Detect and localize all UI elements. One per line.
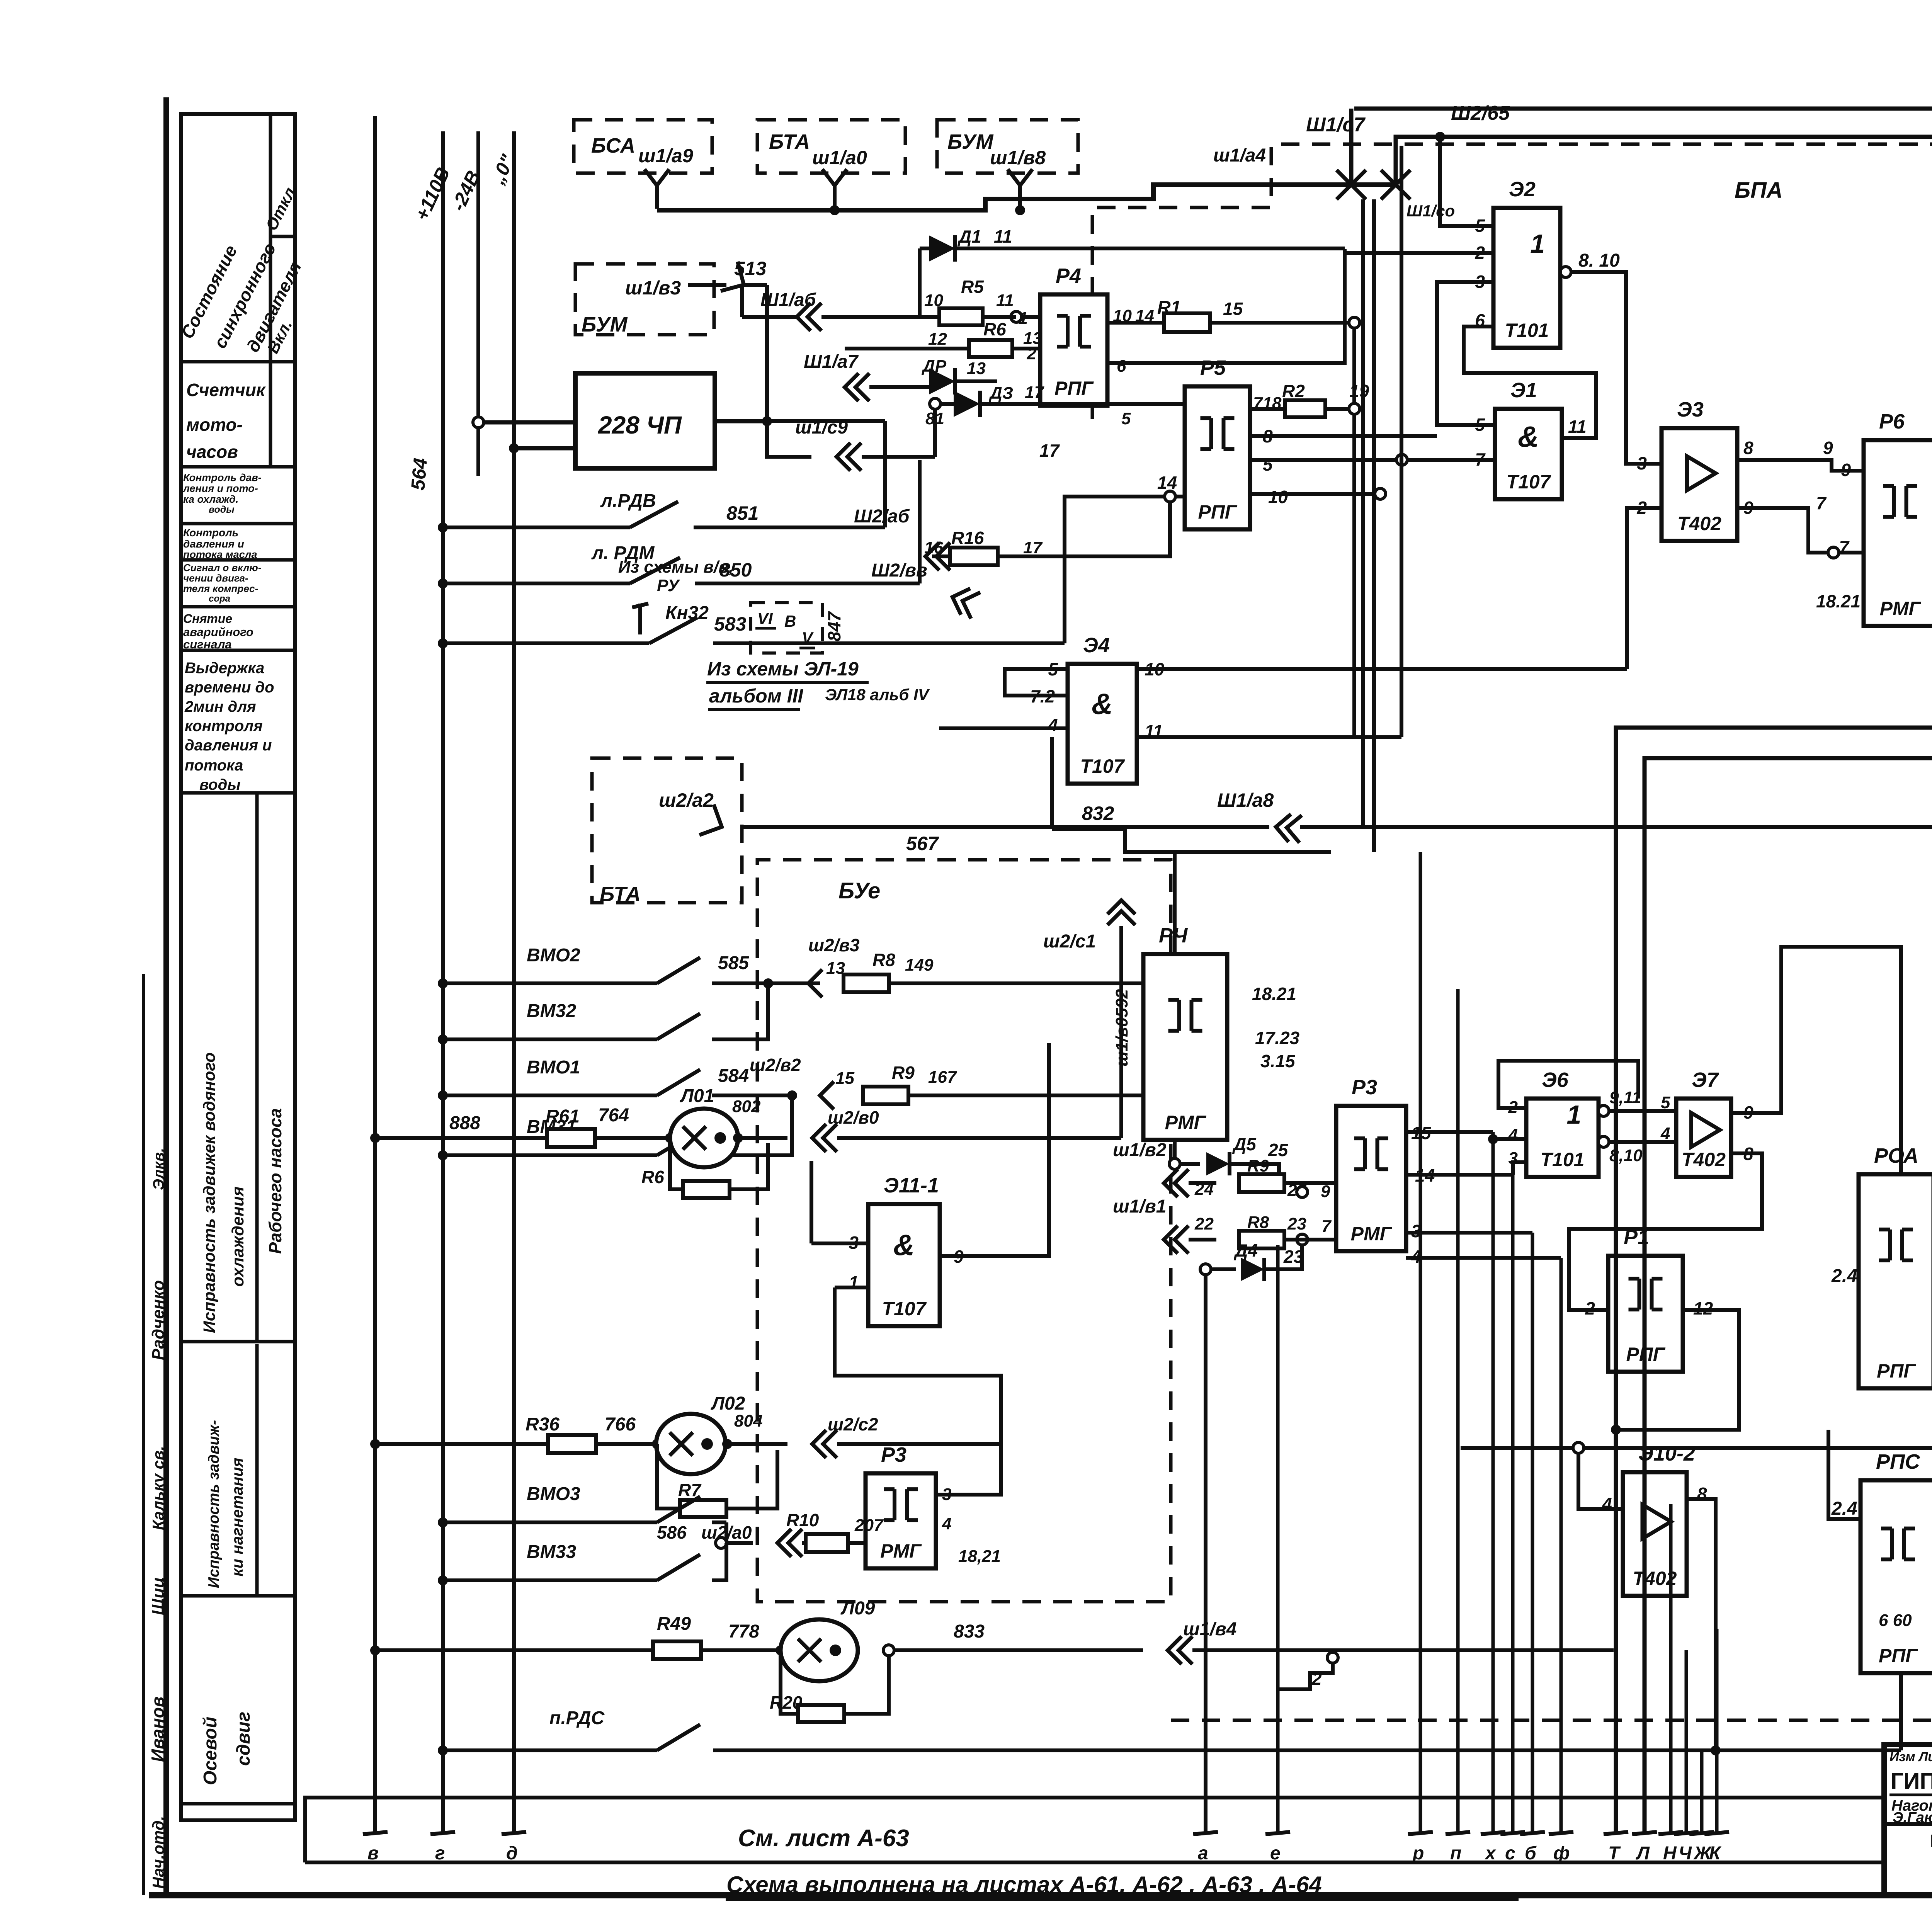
svg-text:18,21: 18,21 (958, 1547, 1001, 1566)
svg-text:РПГ: РПГ (1198, 501, 1238, 523)
svg-text:РПГ: РПГ (1879, 1645, 1918, 1667)
E4 pin4 wire (939, 726, 1068, 730)
svg-text:ш1/в2: ш1/в2 (1113, 1140, 1167, 1160)
svg-text:Рабочего насоса: Рабочего насоса (265, 1108, 285, 1254)
svg-text:Ш1/а8: Ш1/а8 (1217, 789, 1274, 811)
wire R5 pin5 to E1 pin7 (1250, 458, 1495, 462)
svg-text:Радченко: Радченко (149, 1280, 168, 1360)
svg-text:9: 9 (1841, 460, 1851, 480)
wire 0 to 228ChP (509, 443, 519, 453)
svg-text:с: с (1505, 1843, 1515, 1864)
svg-text:584: 584 (718, 1066, 749, 1086)
svg-text:11: 11 (994, 226, 1012, 247)
terminal р (1408, 1832, 1433, 1834)
svg-text:2.4: 2.4 (1831, 1498, 1857, 1519)
E6 pin2 loop (1498, 1061, 1638, 1108)
svg-text:См. лист А-63: См. лист А-63 (738, 1825, 909, 1852)
svg-text:&: & (1518, 420, 1539, 453)
svg-text:Л: Л (1636, 1843, 1650, 1864)
svg-text:Р3: Р3 (1352, 1076, 1377, 1099)
wire sh1/v4 to right (1333, 1648, 1614, 1652)
svg-text:РПС: РПС (1876, 1450, 1920, 1473)
terminal б (1520, 1832, 1545, 1834)
svg-text:РОА: РОА (1874, 1144, 1918, 1167)
terminal а (1193, 1832, 1218, 1834)
svg-text:Элкв.: Элкв. (150, 1148, 167, 1190)
svg-text:Ш1/со: Ш1/со (1406, 202, 1455, 220)
svg-text:контроля: контроля (185, 718, 263, 735)
svg-text:Осевой: Осевой (200, 1717, 221, 1785)
svg-text:п.РДС: п.РДС (549, 1708, 605, 1728)
svg-text:Э6: Э6 (1542, 1068, 1569, 1092)
bus -24V (476, 131, 480, 476)
svg-text:Выдержка: Выдержка (185, 660, 264, 677)
svg-text:б: б (1525, 1843, 1537, 1864)
svg-text:ш1/в3: ш1/в3 (625, 277, 681, 299)
cell: discharge valve (255, 1344, 259, 1596)
relay RPS (1861, 1480, 1932, 1673)
svg-text:х: х (1484, 1843, 1497, 1864)
svg-text:Нач.отд.: Нач.отд. (149, 1816, 167, 1889)
svg-text:давления и: давления и (183, 538, 244, 550)
svg-text:VI: VI (757, 609, 773, 628)
resistor R1 (1164, 313, 1210, 332)
svg-text:д: д (506, 1843, 518, 1864)
svg-text:5: 5 (1121, 409, 1131, 428)
svg-text:Щиц: Щиц (149, 1577, 168, 1615)
title block: org stamp (1884, 1822, 1932, 1826)
svg-text:23: 23 (1287, 1214, 1306, 1233)
strip riser a (1204, 1275, 1207, 1833)
wire 583 (713, 641, 1065, 645)
svg-text:15: 15 (835, 1069, 854, 1088)
svg-text:ш1/в8: ш1/в8 (990, 147, 1046, 168)
svg-text:Т: Т (1608, 1843, 1621, 1864)
block 228ChP (575, 373, 715, 468)
connector sh1/v4 (1168, 1636, 1182, 1664)
svg-text:ш1/а4: ш1/а4 (1213, 145, 1266, 166)
E2 pin5 wire from Sh2/b5 (1440, 137, 1493, 226)
svg-text:Л01: Л01 (680, 1086, 714, 1106)
X connector 2 (1381, 170, 1410, 199)
resistor R6h (969, 340, 1012, 357)
svg-text:ления и пото-: ления и пото- (182, 483, 258, 494)
svg-text:7: 7 (1816, 493, 1827, 513)
svg-text:мото-: мото- (186, 415, 243, 435)
svg-text:R20: R20 (770, 1692, 803, 1713)
R3 mid pin14 wire (1406, 1173, 1513, 1177)
svg-text:Т107: Т107 (1507, 471, 1551, 493)
svg-text:Э2: Э2 (1509, 178, 1536, 201)
relay ROA (1859, 1174, 1932, 1388)
svg-text:ш2/в0: ш2/в0 (828, 1107, 879, 1128)
terminal г (430, 1832, 455, 1834)
svg-text:4: 4 (1048, 715, 1058, 735)
svg-text:ш2/с1: ш2/с1 (1043, 931, 1096, 952)
svg-text:832: 832 (1082, 803, 1114, 824)
svg-text:ш1/в1: ш1/в1 (1113, 1196, 1166, 1217)
svg-text:804: 804 (734, 1412, 762, 1430)
svg-text:14: 14 (1157, 473, 1177, 493)
svg-text:потока: потока (185, 757, 243, 774)
svg-text:R16: R16 (951, 528, 984, 548)
terminal Н (1658, 1832, 1683, 1834)
svg-text:ш1/а9: ш1/а9 (638, 145, 693, 167)
svg-text:Р3: Р3 (881, 1443, 906, 1466)
svg-text:R1: R1 (1157, 298, 1181, 318)
svg-text:ш1/в4: ш1/в4 (1183, 1619, 1236, 1639)
svg-text:Ш2/65: Ш2/65 (1451, 102, 1510, 124)
terminal Л (1632, 1832, 1657, 1834)
svg-text:Из схемы ЭЛ-19: Из схемы ЭЛ-19 (707, 658, 859, 680)
bus +110V (441, 131, 445, 1833)
wire a5 long (1300, 825, 1932, 829)
left info table (181, 114, 295, 1820)
svg-text:17: 17 (1025, 383, 1044, 402)
connector + R10 (777, 1529, 791, 1557)
relay R1 (1608, 1256, 1683, 1372)
svg-text:РМГ: РМГ (1880, 598, 1922, 619)
cell: state of synchronous motor (269, 114, 272, 362)
E11-1 pin1 wire (835, 1286, 868, 1289)
svg-text:9: 9 (1823, 438, 1833, 458)
element E2 (1493, 208, 1560, 348)
svg-text:РМГ: РМГ (880, 1540, 922, 1562)
svg-text:R2: R2 (1282, 381, 1305, 401)
svg-text:5: 5 (1263, 454, 1273, 474)
svg-text:Р5: Р5 (1200, 356, 1226, 379)
trunk verticals to strip (1419, 852, 1422, 1833)
terminal ф (1549, 1832, 1573, 1834)
resistor R16 (950, 548, 998, 565)
bus 0 (512, 131, 516, 1833)
svg-text:25: 25 (1268, 1140, 1289, 1160)
E3 pin9 to R6 pin7 (1737, 508, 1864, 553)
connector 513 (688, 283, 726, 287)
wire sh1/s7 riser (1349, 109, 1354, 185)
wire to 684 (1396, 137, 1932, 270)
svg-text:Э11-1: Э11-1 (884, 1174, 939, 1197)
wire R16 to pin14 (998, 502, 1170, 556)
svg-text:Ш2/аб: Ш2/аб (854, 506, 910, 527)
svg-text:&: & (1092, 688, 1113, 721)
svg-text:1: 1 (1567, 1100, 1582, 1129)
dashed box BPA (1092, 144, 1932, 421)
svg-text:БСА: БСА (591, 134, 635, 157)
svg-text:ш2/с2: ш2/с2 (828, 1414, 878, 1434)
resistor R8 (844, 975, 889, 992)
svg-text:2: 2 (1027, 344, 1037, 363)
resistor R7 (657, 1444, 680, 1509)
connector out BTA (699, 804, 722, 835)
svg-text:ш1/а0: ш1/а0 (812, 147, 867, 168)
element E3 (1662, 428, 1737, 541)
svg-text:Э7: Э7 (1692, 1068, 1719, 1092)
svg-text:ш2/в3: ш2/в3 (808, 935, 860, 955)
wire p.RDS (713, 1748, 1901, 1752)
svg-text:ВМО1: ВМО1 (527, 1057, 580, 1078)
svg-text:охлаждения: охлаждения (229, 1187, 247, 1287)
svg-text:Т402: Т402 (1682, 1149, 1726, 1170)
svg-text:Кн32: Кн32 (665, 603, 709, 623)
svg-text:БУМ: БУМ (582, 313, 628, 336)
svg-text:давления и: давления и (185, 737, 272, 754)
long vertical pair mid-right (1616, 728, 1932, 1833)
svg-text:ф: ф (1553, 1843, 1570, 1864)
svg-text:149: 149 (905, 956, 934, 975)
element E11-1 (868, 1204, 940, 1326)
svg-text:п: п (1450, 1843, 1461, 1864)
svg-text:БУе: БУе (838, 878, 880, 903)
svg-text:1: 1 (1530, 229, 1545, 259)
terminal д (502, 1832, 526, 1834)
svg-text:ка охлажд.: ка охлажд. (183, 493, 238, 505)
svg-text:Ч: Ч (1679, 1843, 1692, 1864)
svg-text:R61: R61 (546, 1106, 580, 1127)
element E10-2 (1623, 1472, 1687, 1596)
svg-text:4: 4 (1602, 1494, 1612, 1514)
terminal е (1265, 1832, 1290, 1834)
svg-text:Э1: Э1 (1510, 379, 1537, 402)
svg-text:802: 802 (732, 1097, 761, 1116)
svg-text:Снятие: Снятие (183, 612, 232, 626)
wire R4 pin6 (1107, 254, 1434, 363)
E3 pin2 wire from E4 pin10 (1627, 508, 1662, 669)
svg-text:Кальку св.: Кальку св. (149, 1446, 167, 1530)
svg-text:R36: R36 (526, 1414, 560, 1435)
svg-text:РЧ: РЧ (1159, 924, 1188, 947)
E4 pin5 loop (1005, 669, 1068, 696)
vertical 3505 (1352, 328, 1356, 403)
svg-text:чении двига-: чении двига- (183, 572, 248, 584)
relay R3 mid (1336, 1106, 1406, 1251)
svg-text:Контроль: Контроль (183, 527, 238, 539)
diode D5 (1169, 1158, 1180, 1169)
svg-text:КОМПРЕССОРНАЯ: КОМПРЕССОРНАЯ (1930, 1831, 1932, 1851)
svg-text:альбом III: альбом III (709, 685, 803, 707)
svg-text:585: 585 (718, 953, 749, 973)
trunk verticals from X connectors (1361, 199, 1365, 827)
terminal п (1446, 1832, 1470, 1834)
svg-text:567: 567 (906, 833, 939, 854)
svg-text:л.РДВ: л.РДВ (600, 491, 656, 511)
svg-text:18.21: 18.21 (1816, 591, 1861, 611)
svg-text:Т101: Т101 (1505, 320, 1549, 341)
svg-text:Схема выполнена на листах А-61: Схема выполнена на листах А-61, А-62 , А… (726, 1872, 1322, 1898)
resistor R5h (939, 308, 983, 325)
svg-text:часов: часов (186, 442, 238, 462)
dashed box BTA top (757, 120, 905, 173)
svg-text:РМГ: РМГ (1165, 1112, 1207, 1133)
svg-text:Исправность задвиж-: Исправность задвиж- (206, 1420, 222, 1588)
wire 228ChP out (715, 419, 767, 423)
svg-text:833: 833 (954, 1621, 985, 1642)
svg-text:11: 11 (1568, 417, 1587, 437)
svg-text:19: 19 (1349, 381, 1369, 401)
diode D3 (954, 391, 980, 417)
svg-text:ДР: ДР (921, 357, 947, 376)
svg-text:11: 11 (996, 291, 1014, 310)
svg-text:Исправность задвижек водяного: Исправность задвижек водяного (200, 1052, 219, 1333)
wire R4 pin5 (1020, 415, 1128, 456)
dashed box BUe (757, 860, 1171, 1602)
resistor R6p (670, 1138, 683, 1189)
svg-text:Д1: Д1 (957, 226, 981, 247)
R3 left pin3 wire (936, 1444, 1001, 1495)
relay R3 left (866, 1473, 936, 1568)
RPS pin10 wire (1909, 1448, 1932, 1497)
svg-text:5: 5 (1475, 415, 1485, 435)
E2 out to E3 pin3 (1571, 272, 1662, 464)
svg-text:Э4: Э4 (1083, 634, 1110, 657)
element E4 (1068, 664, 1137, 784)
svg-text:РМГ: РМГ (1351, 1223, 1393, 1245)
svg-text:17: 17 (1039, 440, 1060, 461)
svg-text:8. 10: 8. 10 (1578, 250, 1620, 271)
R4 pin1 wire (1011, 311, 1022, 322)
svg-text:7: 7 (1321, 1217, 1332, 1236)
svg-text:&: & (893, 1229, 915, 1262)
E2 pin6 loop from E1 pin11 (1464, 327, 1596, 438)
terminal Ж (1689, 1832, 1714, 1834)
top bus wire (657, 185, 1396, 210)
svg-text:теля компрес-: теля компрес- (183, 583, 258, 594)
E10-2 out wire (1687, 1499, 1716, 1750)
connector BUM (1008, 169, 1032, 185)
terminal К (1704, 1832, 1729, 1834)
relay R6 (1864, 440, 1932, 626)
svg-text:766: 766 (605, 1414, 636, 1435)
svg-text:888: 888 (449, 1113, 480, 1133)
diode D1 (929, 235, 955, 262)
svg-text:207: 207 (854, 1516, 884, 1535)
svg-text:Ш1/с7: Ш1/с7 (1306, 114, 1366, 136)
R3 mid pin4 wire (1406, 1256, 1561, 1260)
svg-text:Д5: Д5 (1232, 1134, 1257, 1154)
svg-text:г: г (435, 1843, 445, 1864)
svg-text:Контроль дав-: Контроль дав- (183, 472, 262, 483)
svg-text:4: 4 (942, 1514, 951, 1533)
svg-text:ш1/в0592: ш1/в0592 (1112, 989, 1131, 1066)
connector sh2/v0 (812, 1124, 826, 1152)
svg-text:4: 4 (1508, 1126, 1518, 1145)
connector BTA (822, 169, 847, 185)
cell: motor-hours counter (269, 362, 272, 467)
dashed box BSA (574, 120, 712, 173)
element E1 (1495, 409, 1562, 499)
svg-text:778: 778 (728, 1621, 759, 1642)
svg-text:БПА: БПА (1735, 178, 1783, 203)
svg-text:ш2/в2: ш2/в2 (750, 1055, 801, 1075)
small dashed box VI V (751, 603, 822, 653)
dashed box BUM v3 (575, 264, 714, 335)
wire to E10-2 (1461, 1446, 1909, 1450)
svg-text:ВМО3: ВМО3 (527, 1484, 580, 1504)
svg-text:ДЗ: ДЗ (988, 384, 1013, 403)
E7 out wires (1731, 947, 1901, 1287)
resistor R2 (1285, 400, 1325, 417)
svg-text:ш2/а2: ш2/а2 (659, 789, 714, 811)
terminal х (1481, 1832, 1505, 1834)
svg-text:10: 10 (924, 291, 943, 310)
svg-text:R9: R9 (892, 1063, 915, 1083)
terminal Т (1604, 1832, 1628, 1834)
svg-text:564: 564 (407, 457, 431, 491)
svg-text:ВМ33: ВМ33 (527, 1542, 576, 1562)
E3 pin8 to R6 pin9 (1737, 460, 1864, 471)
svg-text:воды: воды (199, 776, 240, 793)
svg-text:ГИПРОСТРОЙДОРМАШ: ГИПРОСТРОЙДОРМАШ (1891, 1768, 1932, 1794)
svg-text:R6: R6 (983, 319, 1006, 339)
svg-text:Э.Гаютлева чк-Дор 2.1976 г.: Э.Гаютлева чк-Дор 2.1976 г. (1893, 1810, 1932, 1826)
dashed box BUM top (937, 120, 1078, 173)
element E7 (1676, 1099, 1731, 1177)
svg-text:Т402: Т402 (1677, 513, 1721, 534)
svg-text:а: а (1198, 1843, 1208, 1864)
svg-text:15: 15 (1223, 299, 1243, 319)
svg-text:ВМО2: ВМО2 (527, 945, 580, 966)
svg-text:сдвиг: сдвиг (233, 1712, 254, 1766)
svg-text:Ш2/вв: Ш2/вв (871, 560, 927, 581)
E2 pin3 wire to E1 pin5 (1437, 282, 1495, 425)
R3 mid pin3 wire (1406, 1231, 1532, 1235)
terminal с (1500, 1832, 1525, 1834)
svg-text:2.4: 2.4 (1831, 1266, 1857, 1286)
svg-text:в: в (367, 1843, 379, 1864)
relay R4 (1040, 294, 1107, 406)
svg-text:е: е (1270, 1843, 1281, 1864)
svg-text:потока масла: потока масла (183, 549, 257, 560)
wire 567 (742, 825, 1269, 829)
svg-text:851: 851 (726, 502, 759, 524)
svg-text:Т107: Т107 (1080, 755, 1125, 777)
svg-text:Э3: Э3 (1677, 398, 1704, 421)
svg-text:р: р (1412, 1843, 1424, 1864)
connector BSA (645, 169, 669, 185)
E6 pin4 wire (1493, 1137, 1526, 1141)
svg-text:12: 12 (928, 330, 947, 349)
E6 to E7 wires (1609, 1109, 1676, 1113)
relay R5 (1185, 386, 1250, 529)
svg-text:времени до: времени до (185, 679, 274, 696)
E4 pin11 wire (1137, 735, 1401, 739)
svg-text:ки нагнетания: ки нагнетания (228, 1458, 246, 1577)
svg-text:R5: R5 (961, 277, 984, 297)
svg-text:Л02: Л02 (711, 1393, 745, 1414)
element E6 (1526, 1099, 1599, 1177)
svg-text:В: В (784, 612, 796, 630)
svg-text:1: 1 (849, 1272, 859, 1293)
svg-text:Т101: Т101 (1541, 1149, 1585, 1170)
svg-text:17.23: 17.23 (1255, 1028, 1300, 1048)
cell: valves of water cooling (255, 793, 259, 1342)
svg-text:РПГ: РПГ (1054, 378, 1094, 399)
svg-text:ЭЛ18 альб IV: ЭЛ18 альб IV (825, 685, 930, 704)
svg-text:Из схемы в/в,: Из схемы в/в, (618, 558, 733, 577)
E11-1 pin9 wire (940, 1043, 1049, 1256)
svg-text:Ш1/а7: Ш1/а7 (804, 352, 859, 372)
wire -24V to 228ChP (473, 417, 484, 428)
svg-text:17: 17 (1023, 538, 1043, 557)
svg-text:7: 7 (1839, 537, 1850, 557)
diode D2 (929, 368, 955, 395)
trunk vertical 3627 (1400, 146, 1403, 737)
relay RCh (1143, 954, 1227, 1140)
svg-text:10: 10 (1268, 487, 1288, 507)
svg-text:586: 586 (657, 1522, 687, 1543)
svg-text:Сигнал о вклю-: Сигнал о вклю- (183, 562, 261, 573)
title block (1884, 1745, 1932, 1895)
